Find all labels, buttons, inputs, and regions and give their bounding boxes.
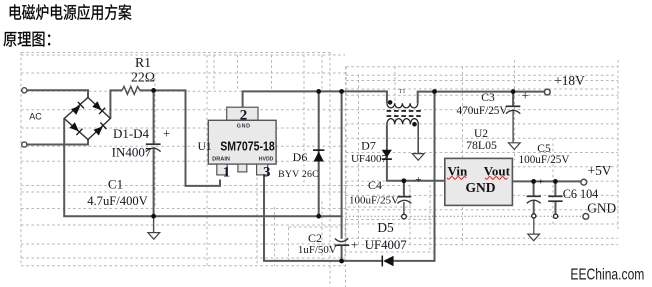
terminal +5V xyxy=(581,179,587,185)
T1 primary phase dot xyxy=(388,100,393,105)
terminal GND xyxy=(583,214,589,220)
wire AC bottom terminal to bridge bottom xyxy=(25,140,89,145)
diode D1 (bridge top-left) xyxy=(71,106,80,115)
terminal AC top xyxy=(22,88,27,93)
op-amp U1 SM7075-18 package xyxy=(208,107,276,175)
svg-text:100uF/25V: 100uF/25V xyxy=(519,154,570,166)
svg-text:22Ω: 22Ω xyxy=(131,70,155,85)
svg-text:+: + xyxy=(351,238,358,252)
wire C2 bottom to bottom rail xyxy=(341,245,343,261)
svg-text:R1: R1 xyxy=(135,55,151,70)
diode D5 UF4007 xyxy=(382,256,393,267)
diode D7 UF4007 xyxy=(382,150,392,159)
drawing grid (decorative) xyxy=(21,53,618,287)
wire bridge negative to ground rail xyxy=(64,119,342,217)
wire bridge positive up to R1 xyxy=(110,90,122,118)
diode bridge D1-D4 diamond xyxy=(64,98,110,140)
svg-text:UF4007: UF4007 xyxy=(351,153,388,165)
transformer T1 core xyxy=(387,111,422,116)
diode D4 (bridge bottom-right) xyxy=(94,126,103,135)
ground (C5) xyxy=(528,234,540,241)
transformer T1 secondary winding xyxy=(387,119,418,125)
spellcheck squiggle under Vout xyxy=(485,177,507,180)
svg-text:T1: T1 xyxy=(399,88,406,95)
svg-text:+: + xyxy=(163,126,170,141)
svg-text:2: 2 xyxy=(240,107,248,123)
svg-text:+5V: +5V xyxy=(588,163,612,178)
wire C6 bottom stem xyxy=(555,201,557,214)
op-amp U2 78L05 box xyxy=(445,158,513,205)
wire C6 top stem xyxy=(554,181,556,196)
resistor R1 22Ω xyxy=(122,86,140,94)
svg-text:470uF/25V: 470uF/25V xyxy=(457,105,508,117)
subtitle 原理图： xyxy=(3,32,50,47)
wire C1 bottom to ground rail xyxy=(153,147,155,216)
svg-text:+18V: +18V xyxy=(554,73,585,88)
svg-text:3: 3 xyxy=(263,165,271,181)
svg-text:BYV 26C: BYV 26C xyxy=(278,169,319,180)
svg-text:D7: D7 xyxy=(361,139,376,153)
wire C4 bottom stem xyxy=(403,202,405,214)
svg-text:+: + xyxy=(415,174,421,186)
ground (C1) xyxy=(148,233,160,240)
wire ground stub below C1 xyxy=(153,216,155,233)
wire C3 bottom stem to ground xyxy=(512,110,514,143)
svg-text:D6: D6 xyxy=(293,150,308,164)
svg-text:+: + xyxy=(538,177,544,188)
ground (C3) xyxy=(508,143,520,150)
transformer T1 primary winding xyxy=(387,103,418,108)
svg-text:DRAIN: DRAIN xyxy=(212,157,230,163)
svg-text:HVDD: HVDD xyxy=(259,157,274,163)
svg-text:AC: AC xyxy=(29,112,42,122)
diode D2 (bridge top-right) xyxy=(92,101,101,110)
capacitor C1 4.7uF/400V xyxy=(146,144,161,151)
svg-text:Vout: Vout xyxy=(484,164,511,179)
terminal AC bottom xyxy=(22,142,27,147)
terminal C4 bottom xyxy=(402,214,407,219)
terminal C6 bottom xyxy=(554,214,558,218)
svg-text:1: 1 xyxy=(223,165,231,181)
wire T1 secondary through D7 to U2 Vin xyxy=(387,124,445,181)
svg-text:D1-D4: D1-D4 xyxy=(113,126,150,141)
capacitor C5 100uF/25V xyxy=(527,196,541,203)
terminal +18V xyxy=(544,89,550,95)
svg-text:+: + xyxy=(522,88,529,103)
wire D6 branch xyxy=(318,91,320,216)
wire AC top terminal to bridge top xyxy=(25,90,89,97)
svg-text:C4: C4 xyxy=(368,178,382,192)
svg-text:4.7uF/400V: 4.7uF/400V xyxy=(87,194,148,208)
wire C5 mid stem xyxy=(533,200,535,214)
capacitor C2 1uF/50V xyxy=(335,239,350,246)
capacitor C6 104 xyxy=(548,196,562,201)
svg-text:GND: GND xyxy=(237,123,251,129)
wire junction dots xyxy=(151,88,156,93)
svg-text:D5: D5 xyxy=(377,220,394,235)
title 电磁炉电源应用方案 xyxy=(10,4,132,20)
wire D5 anode to top rail riser xyxy=(394,92,435,261)
svg-text:100uF/25V: 100uF/25V xyxy=(349,194,399,206)
wire T1 primary right to +18V rail xyxy=(418,92,545,104)
svg-text:78L05: 78L05 xyxy=(466,138,497,152)
wire U1 pin 3 (HVDD) to bottom rail / D5 cathode xyxy=(264,175,382,261)
T1 secondary phase dot xyxy=(412,122,417,127)
svg-text:GND: GND xyxy=(587,201,616,216)
terminal C5 bottom xyxy=(532,214,536,218)
wire node DC+ down to C1 xyxy=(153,90,155,144)
wire U2 Vout to +5V xyxy=(512,180,581,182)
spellcheck squiggle under Vin xyxy=(447,177,466,180)
wire C5 top stem xyxy=(533,181,535,196)
svg-text:1uF/50V: 1uF/50V xyxy=(298,244,337,256)
svg-text:GND: GND xyxy=(466,180,496,195)
wire C4 top stem xyxy=(403,181,405,197)
diode D3 (bridge bottom-left) xyxy=(70,122,79,131)
wire R1 to U1 pin 1 (DRAIN) xyxy=(140,90,220,185)
diode D6 BYV26C xyxy=(313,150,324,161)
wire C2 branch top xyxy=(341,91,343,239)
svg-text:C3: C3 xyxy=(481,92,495,104)
wire C3 top stem xyxy=(512,92,514,107)
svg-text:UF4007: UF4007 xyxy=(365,238,408,252)
capacitor C4 100uF/25V xyxy=(398,197,412,204)
wire T1 secondary right to ground arrow xyxy=(417,124,419,153)
wire U1 tab GND rail to T1 primary left xyxy=(243,91,387,107)
svg-text:IN4007: IN4007 xyxy=(112,145,152,160)
svg-text:U1: U1 xyxy=(198,141,212,153)
svg-text:C1: C1 xyxy=(108,177,123,192)
capacitor C3 470uF/25V xyxy=(506,106,520,113)
wire C5 bottom to ground xyxy=(533,218,535,234)
ground (T1 secondary) xyxy=(412,154,424,161)
svg-text:EEChina.com: EEChina.com xyxy=(570,266,644,283)
svg-text:SM7075-18: SM7075-18 xyxy=(220,139,275,153)
svg-text:C6 104: C6 104 xyxy=(563,187,599,201)
svg-text:C2: C2 xyxy=(308,231,322,245)
